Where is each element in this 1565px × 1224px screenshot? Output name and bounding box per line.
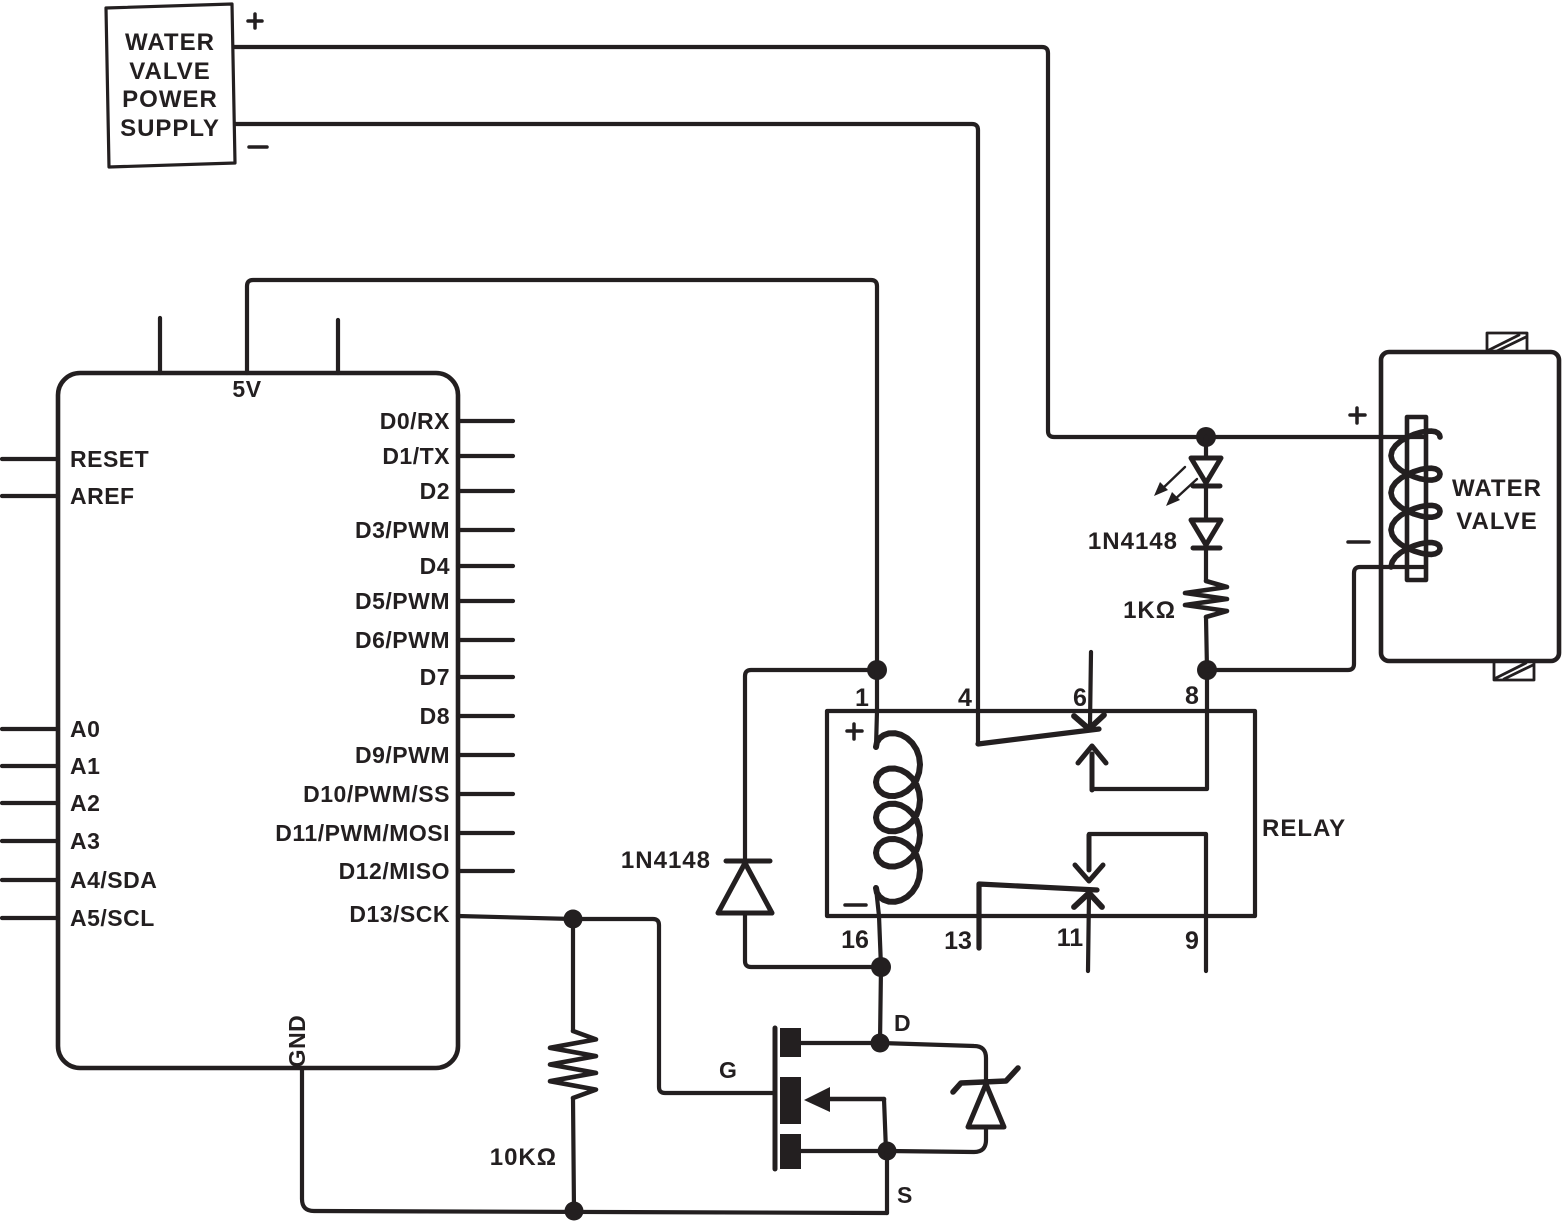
relay K1 body xyxy=(827,711,1255,916)
relay coil L1 xyxy=(876,733,920,902)
svg-text:G: G xyxy=(719,1057,737,1083)
svg-text:SUPPLY: SUPPLY xyxy=(120,115,220,142)
wire relay coil + to flyback diode cathode xyxy=(745,670,877,861)
wire relay pin 11 xyxy=(1088,893,1089,971)
wire R 10K to ground rail xyxy=(573,1098,574,1211)
node D junction xyxy=(871,1034,890,1053)
svg-text:POWER: POWER xyxy=(122,86,218,113)
svg-text:10KΩ: 10KΩ xyxy=(490,1144,557,1171)
node 16 junction xyxy=(871,957,891,977)
label + (valve) xyxy=(1350,408,1365,423)
pin A1 stub xyxy=(2,764,58,768)
pin A5/SCL stub xyxy=(2,916,58,920)
relay NC contact arrow lower xyxy=(1075,835,1103,881)
diode D3 1N4148 triangle xyxy=(1191,520,1221,545)
transistor Q1 gate bar xyxy=(773,1028,778,1169)
pin D8 stub xyxy=(458,714,513,718)
svg-text:D0/RX: D0/RX xyxy=(380,408,450,434)
svg-text:D11/PWM/MOSI: D11/PWM/MOSI xyxy=(275,820,450,846)
pin D6/PWM stub xyxy=(458,638,513,642)
wire node S down to ground rail xyxy=(885,1151,889,1213)
svg-text:1N4148: 1N4148 xyxy=(621,847,711,874)
LED light arrow 1 xyxy=(1161,467,1185,490)
svg-text:D8: D8 xyxy=(420,703,450,729)
pin A4/SDA stub xyxy=(2,878,58,882)
pin A3 stub xyxy=(2,839,58,843)
svg-text:GND: GND xyxy=(284,1015,310,1068)
svg-text:1N4148: 1N4148 xyxy=(1088,528,1178,555)
wire top stub 2 xyxy=(336,320,340,373)
LED D1 triangle xyxy=(1191,458,1221,483)
wire relay pin 8 to NO contact xyxy=(1092,670,1207,789)
wire flyback diode anode to node 16 xyxy=(745,913,881,967)
svg-text:AREF: AREF xyxy=(70,483,135,509)
svg-text:A2: A2 xyxy=(70,790,100,816)
svg-text:D5/PWM: D5/PWM xyxy=(355,588,450,614)
svg-text:16: 16 xyxy=(841,926,869,954)
wire node 16 down to node D xyxy=(880,967,881,1043)
svg-text:8: 8 xyxy=(1185,682,1199,710)
svg-text:D2: D2 xyxy=(420,478,450,504)
diode D4 zener triangle xyxy=(968,1084,1004,1127)
svg-text:A5/SCL: A5/SCL xyxy=(70,905,155,931)
resistor R2 10K ohm xyxy=(550,1031,596,1098)
LED D1 cathode bar xyxy=(1193,484,1220,489)
power supply PS1 box xyxy=(106,4,235,167)
pin D12/MISO stub xyxy=(458,869,513,873)
Arduino U1 body xyxy=(58,373,458,1068)
valve coil core bar xyxy=(1407,417,1426,580)
svg-text:D6/PWM: D6/PWM xyxy=(355,627,450,653)
wire junction to LED xyxy=(1204,437,1208,458)
wire relay pin 4 lever (common upper pole) xyxy=(978,729,1099,744)
transistor Q1 body arrow xyxy=(812,1097,884,1102)
svg-text:5V: 5V xyxy=(232,376,261,402)
contact arrowhead upper (pin 6 NC) xyxy=(1074,715,1104,729)
label WATER VALVE POWER SUPPLY xyxy=(120,29,220,142)
wire PS1 - to relay pin 4 xyxy=(235,124,978,744)
wire PS1 + to valve + (node A) xyxy=(234,47,1425,437)
svg-text:11: 11 xyxy=(1057,924,1084,952)
svg-text:1: 1 xyxy=(855,684,869,712)
svg-text:RELAY: RELAY xyxy=(1262,815,1346,842)
transistor Q1 channel segments xyxy=(780,1028,801,1169)
svg-text:A1: A1 xyxy=(70,753,100,779)
pin D4 stub xyxy=(458,564,513,568)
pin A2 stub xyxy=(2,801,58,805)
pin D5/PWM stub xyxy=(458,599,513,603)
LED light arrow 2 xyxy=(1173,479,1197,501)
svg-text:WATER: WATER xyxy=(1452,475,1542,502)
node relay pin1 junction xyxy=(867,660,887,680)
node R10K-ground junction xyxy=(565,1202,584,1221)
svg-text:A0: A0 xyxy=(70,716,100,742)
svg-text:A3: A3 xyxy=(70,828,100,854)
wire node D to zener cathode xyxy=(880,1043,986,1086)
pin A0 stub xyxy=(2,727,58,731)
svg-text:VALVE: VALVE xyxy=(129,58,210,85)
svg-text:6: 6 xyxy=(1073,684,1087,712)
svg-text:4: 4 xyxy=(958,684,972,712)
valve solenoid coil xyxy=(1391,431,1440,567)
node valve + junction xyxy=(1196,427,1216,447)
wire relay pin 13 lever (common lower pole) xyxy=(979,884,1097,948)
valve top screw xyxy=(1487,333,1527,352)
wire diode D3 to R1 xyxy=(1204,548,1208,581)
wire LED to diode D3 xyxy=(1204,486,1208,520)
node pin8/LED junction xyxy=(1197,660,1217,680)
svg-text:D: D xyxy=(894,1010,911,1036)
label - (coil) xyxy=(845,903,866,907)
wire relay pin 9 to NC contact xyxy=(1089,834,1206,971)
water valve body xyxy=(1381,352,1559,661)
svg-text:D10/PWM/SS: D10/PWM/SS xyxy=(303,781,450,807)
svg-text:D12/MISO: D12/MISO xyxy=(339,858,450,884)
pin D9/PWM stub xyxy=(458,753,513,757)
wire 5V pin to relay coil pin 1 xyxy=(247,280,877,670)
wire R1 to node pin8 xyxy=(1206,617,1207,670)
svg-text:RESET: RESET xyxy=(70,446,149,472)
relay NO contact arrow upper xyxy=(1078,746,1106,790)
valve bottom screw xyxy=(1494,661,1534,680)
label - terminal of PS1 xyxy=(249,145,267,149)
wire D13 junction down to R 10K xyxy=(571,919,575,1031)
svg-text:A4/SDA: A4/SDA xyxy=(70,867,157,893)
pin D10/PWM/SS stub xyxy=(458,792,513,796)
svg-text:D7: D7 xyxy=(420,664,450,690)
pin RESET stub xyxy=(2,457,58,461)
wire Q1 arrow to source xyxy=(884,1099,886,1151)
svg-text:S: S xyxy=(897,1182,913,1208)
node S junction xyxy=(878,1142,897,1161)
pin D11/PWM/MOSI stub xyxy=(458,831,513,835)
label - (valve) xyxy=(1348,540,1369,544)
svg-text:WATER: WATER xyxy=(125,29,215,56)
node D13 junction xyxy=(564,910,583,929)
wire Q1 source to node S xyxy=(801,1149,887,1153)
label + (coil) xyxy=(847,724,862,739)
pin D7 stub xyxy=(458,675,513,679)
label + terminal of PS1 xyxy=(248,14,262,28)
wire Q1 drain to node D xyxy=(801,1041,880,1045)
wire top stub 1 xyxy=(158,318,162,373)
pin AREF stub xyxy=(2,494,58,498)
wire relay pin 6 xyxy=(1090,652,1091,724)
diode D2 1N4148 triangle xyxy=(718,863,772,913)
svg-text:D4: D4 xyxy=(420,553,450,579)
resistor R1 1K ohm xyxy=(1185,581,1227,617)
svg-text:13: 13 xyxy=(944,927,972,955)
svg-text:VALVE: VALVE xyxy=(1456,508,1537,535)
wire GND pin to source rail xyxy=(302,1068,887,1213)
wire D13/SCK to gate of Q1 xyxy=(458,916,775,1093)
diode D4 zener bar xyxy=(953,1068,1018,1092)
pin D2 stub xyxy=(458,489,513,493)
label WATER VALVE xyxy=(1452,475,1542,535)
pin D1/TX stub xyxy=(458,454,513,458)
svg-text:D9/PWM: D9/PWM xyxy=(355,742,450,768)
svg-text:9: 9 xyxy=(1185,927,1199,955)
svg-text:D3/PWM: D3/PWM xyxy=(355,517,450,543)
pin D3/PWM stub xyxy=(458,528,513,532)
contact arrowhead lower (pin 11 NO) xyxy=(1074,893,1102,907)
diode D2 1N4148 cathode bar xyxy=(726,859,770,864)
wire relay coil - to pin 16 and node 16 xyxy=(876,888,881,967)
svg-text:D1/TX: D1/TX xyxy=(382,443,450,469)
diode D3 cathode bar xyxy=(1193,546,1220,551)
wire relay pin 1 into coil xyxy=(876,670,877,747)
svg-text:1KΩ: 1KΩ xyxy=(1123,597,1176,624)
wire zener anode to node S xyxy=(887,1127,986,1152)
svg-text:D13/SCK: D13/SCK xyxy=(349,901,450,927)
pin D0/RX stub xyxy=(458,419,513,423)
wire node pin8 to valve - xyxy=(1207,567,1425,670)
